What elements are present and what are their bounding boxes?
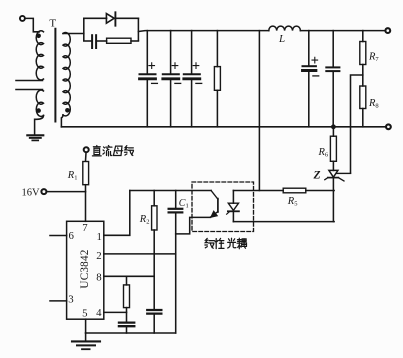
wire supply drop to optocoupler LED: [258, 31, 260, 191]
wire snubber left edge: [83, 18, 85, 40]
label DC bus 直流母线: [92, 146, 101, 156]
wire primary stub lower: [16, 89, 43, 91]
regulator Z: [329, 170, 338, 177]
capacitor C1: [175, 191, 177, 208]
wire pin 8: [104, 275, 154, 277]
resistor R5: [283, 188, 306, 193]
transformer T primary upper winding: [36, 31, 43, 80]
terminal DC bus: [84, 147, 89, 152]
transformer polarity dot secondary: [65, 108, 70, 113]
wire top rail right: [300, 30, 385, 32]
wire diode branch left: [84, 17, 107, 19]
wire C1 bottom riser to ground rail: [175, 213, 177, 333]
capacitor filter 2 (electrolytic): [170, 31, 172, 74]
terminal 16V: [41, 189, 46, 194]
phototransistor: [211, 191, 218, 200]
wire snubber right edge: [137, 18, 139, 40]
capacitor filter 3 (electrolytic): [191, 31, 193, 74]
wire divider tap to Z reference: [351, 75, 363, 173]
wire pin1 node line to phototransistor collector: [130, 190, 211, 192]
capacitor filter 1 (electrolytic): [146, 31, 148, 74]
transformer core: [54, 29, 56, 122]
resistor R1: [85, 153, 88, 161]
node junction dot: [331, 124, 336, 129]
wire LED anode line: [233, 190, 283, 192]
resistor R7: [362, 31, 364, 42]
resistor R8: [360, 86, 366, 109]
resistor snubber: [98, 40, 107, 42]
svg-text:UC3842: UC3842: [79, 249, 91, 288]
terminal input top-left: [20, 16, 25, 21]
ground (primary): [27, 134, 43, 136]
wire diode branch right: [115, 17, 138, 19]
wire 16V to pin7 node: [47, 191, 86, 193]
wire pin 1: [104, 191, 130, 236]
wire top rail left: [138, 30, 268, 33]
terminal output plus: [385, 28, 390, 33]
svg-text:6: 6: [68, 230, 74, 242]
wire emitter to C1 bottom node: [176, 217, 211, 234]
svg-text:1: 1: [96, 231, 101, 243]
svg-text:16V: 16V: [22, 187, 41, 198]
wire primary stub upper: [16, 80, 43, 82]
transformer T primary lower winding: [36, 90, 43, 116]
svg-text:7: 7: [82, 222, 88, 234]
wire bottom rail: [61, 126, 385, 128]
svg-text:3: 3: [68, 294, 73, 306]
inductor L: [269, 26, 301, 31]
capacitor comp under R2: [147, 309, 161, 311]
svg-text:4: 4: [96, 307, 102, 319]
capacitor CT: [119, 322, 134, 324]
wire primary to ground: [35, 115, 44, 134]
svg-text:8: 8: [96, 271, 101, 283]
svg-text:L: L: [278, 33, 285, 45]
transformer T secondary winding: [63, 33, 70, 116]
capacitor output ceramic: [332, 31, 334, 67]
wire pin 5 to ground rail: [85, 319, 87, 333]
diode D1: [106, 14, 114, 24]
optocoupler dashed box: [192, 182, 254, 232]
wire pin 4: [104, 311, 127, 313]
svg-text:2: 2: [96, 250, 101, 262]
wire input to primary: [25, 18, 39, 31]
wire divider middle: [362, 65, 364, 87]
svg-text:5: 5: [82, 307, 87, 319]
resistor bleeder: [216, 31, 218, 67]
label linear optocoupler 线性光耦: [205, 238, 214, 248]
wire pin 6 stub: [50, 235, 67, 237]
svg-text:Z: Z: [313, 169, 321, 181]
wire LED cathode return: [233, 221, 334, 223]
resistor RT: [126, 276, 128, 285]
svg-text:T: T: [49, 17, 56, 29]
capacitor output electrolytic: [308, 31, 310, 66]
wire pin 3 stub: [50, 300, 67, 302]
terminal output minus: [386, 124, 391, 129]
wire secondary top to snubber: [63, 33, 84, 35]
ground (chip): [85, 333, 87, 341]
wire secondary bottom to rail: [61, 115, 63, 127]
op-amp U1 UC3842: [67, 221, 104, 319]
capacitor snubber: [84, 40, 91, 42]
transformer polarity dot primary bottom: [36, 108, 41, 113]
wire ground rail: [86, 332, 176, 334]
LED of optocoupler: [232, 191, 234, 204]
resistor R6: [332, 127, 334, 136]
resistor R2: [153, 191, 155, 206]
transformer polarity dot primary top: [36, 34, 41, 39]
wire pin 2: [104, 253, 176, 255]
